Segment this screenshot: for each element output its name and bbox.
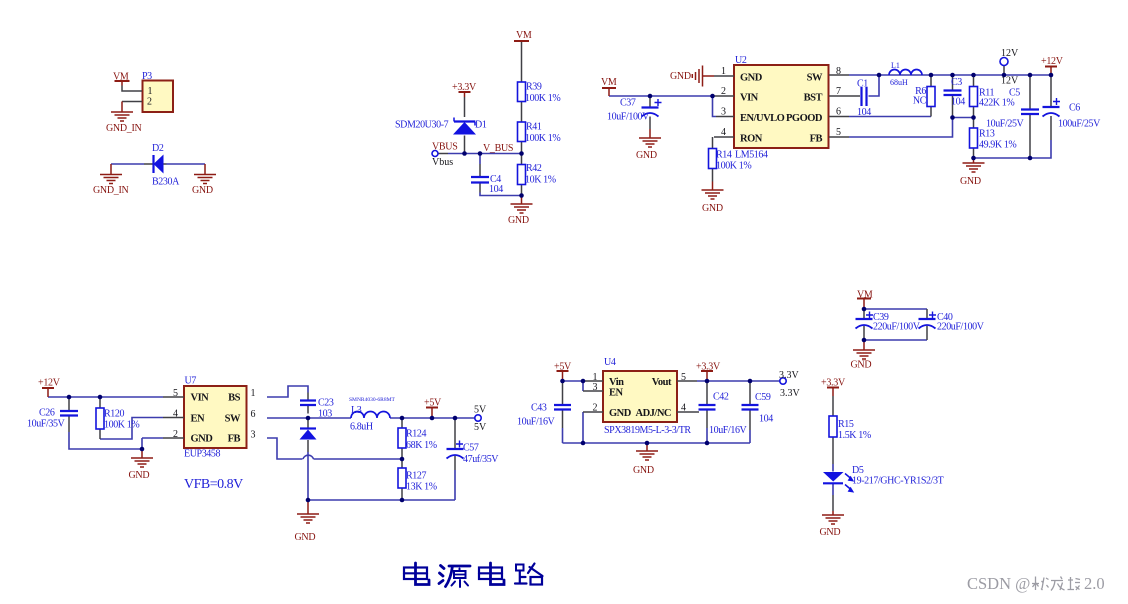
svg-text:47uf/35V: 47uf/35V	[463, 454, 499, 465]
svg-text:EN: EN	[609, 388, 624, 399]
svg-text:R120: R120	[104, 409, 124, 420]
svg-text:R15: R15	[838, 419, 854, 430]
svg-text:8: 8	[836, 66, 841, 77]
svg-text:GND: GND	[508, 215, 529, 226]
svg-text:C23: C23	[318, 398, 334, 409]
svg-text:3.3V: 3.3V	[779, 370, 800, 381]
svg-text:13K 1%: 13K 1%	[406, 482, 437, 493]
svg-text:100K 1%: 100K 1%	[716, 161, 751, 172]
svg-text:68uH: 68uH	[890, 78, 908, 87]
svg-text:Vin: Vin	[609, 377, 624, 388]
svg-text:FB: FB	[228, 434, 241, 445]
svg-text:2: 2	[721, 86, 726, 97]
svg-text:6: 6	[836, 107, 841, 118]
svg-text:100K 1%: 100K 1%	[104, 420, 139, 431]
svg-text:FB: FB	[810, 134, 823, 145]
svg-text:4: 4	[721, 127, 726, 138]
svg-text:10uF/16V: 10uF/16V	[517, 417, 556, 428]
svg-text:5: 5	[836, 127, 841, 138]
svg-text:VM: VM	[113, 72, 129, 83]
svg-text:2: 2	[147, 97, 152, 108]
svg-text:L3: L3	[351, 405, 362, 416]
svg-text:U4: U4	[604, 357, 616, 368]
svg-text:BST: BST	[804, 93, 823, 104]
svg-text:3: 3	[251, 430, 256, 441]
svg-text:104: 104	[857, 107, 871, 118]
svg-text:220uF/100V: 220uF/100V	[937, 322, 985, 333]
svg-text:P3: P3	[142, 71, 152, 82]
svg-text:D1: D1	[475, 120, 487, 131]
svg-text:ADJ/NC: ADJ/NC	[636, 408, 672, 419]
svg-text:3: 3	[721, 107, 726, 118]
svg-text:GND: GND	[851, 360, 872, 371]
svg-text:Vout: Vout	[652, 377, 672, 388]
svg-text:C42: C42	[713, 392, 729, 403]
svg-text:12V: 12V	[1001, 48, 1019, 59]
svg-text:5: 5	[173, 388, 178, 399]
svg-text:V_BUS: V_BUS	[483, 143, 513, 154]
svg-text:VIN: VIN	[740, 93, 759, 104]
svg-text:EUP3458: EUP3458	[184, 449, 220, 460]
svg-text:220uF/100V: 220uF/100V	[873, 322, 921, 333]
svg-text:C37: C37	[620, 98, 636, 109]
svg-text:EN/UVLO: EN/UVLO	[740, 113, 785, 124]
svg-text:GND: GND	[633, 465, 654, 476]
svg-text:C6: C6	[1069, 103, 1080, 114]
svg-text:C1: C1	[857, 79, 868, 90]
svg-text:68K 1%: 68K 1%	[406, 440, 437, 451]
svg-text:VM: VM	[516, 30, 532, 41]
svg-text:EN: EN	[191, 414, 206, 425]
svg-text:C26: C26	[39, 408, 55, 419]
svg-text:SMNR4030-6R8MT: SMNR4030-6R8MT	[349, 397, 395, 403]
svg-text:12V: 12V	[1001, 76, 1019, 87]
svg-text:+12V: +12V	[38, 378, 61, 389]
svg-text:LM5164: LM5164	[735, 150, 768, 161]
svg-text:U7: U7	[185, 376, 197, 387]
svg-text:+3.3V: +3.3V	[821, 378, 846, 389]
svg-text:R124: R124	[406, 429, 426, 440]
svg-text:GND: GND	[191, 434, 214, 445]
svg-text:3.3V: 3.3V	[780, 388, 801, 399]
svg-text:100uF/25V: 100uF/25V	[1058, 119, 1101, 130]
svg-text:100K 1%: 100K 1%	[525, 93, 560, 104]
svg-text:Vbus: Vbus	[432, 157, 453, 168]
svg-text:C3: C3	[951, 77, 962, 88]
svg-text:GND_IN: GND_IN	[93, 185, 128, 196]
svg-text:VIN: VIN	[191, 393, 210, 404]
svg-text:R41: R41	[526, 122, 542, 133]
svg-text:10uF/100V: 10uF/100V	[607, 112, 650, 123]
svg-text:+5V: +5V	[424, 398, 442, 409]
svg-text:SW: SW	[807, 73, 823, 84]
svg-text:R39: R39	[526, 82, 542, 93]
svg-text:2.0: 2.0	[1084, 574, 1105, 593]
svg-text:GND: GND	[129, 470, 150, 481]
svg-text:VM: VM	[857, 290, 873, 301]
svg-text:GND: GND	[740, 73, 763, 84]
svg-text:VBUS: VBUS	[432, 142, 457, 153]
svg-text:104: 104	[489, 184, 503, 195]
svg-text:L1: L1	[891, 61, 900, 70]
svg-text:10uF/35V: 10uF/35V	[27, 419, 66, 430]
svg-text:+5V: +5V	[554, 362, 572, 373]
svg-text:R14: R14	[716, 150, 732, 161]
svg-text:GND: GND	[295, 532, 316, 543]
svg-text:6.8uH: 6.8uH	[350, 422, 373, 433]
svg-text:C59: C59	[755, 392, 771, 403]
svg-text:GND: GND	[702, 203, 723, 214]
svg-text:1.5K 1%: 1.5K 1%	[838, 430, 871, 441]
svg-text:GND: GND	[820, 527, 841, 538]
svg-text:GND: GND	[609, 408, 632, 419]
svg-text:4: 4	[681, 403, 686, 414]
svg-text:104: 104	[951, 97, 965, 108]
svg-text:6: 6	[251, 409, 256, 420]
svg-text:10K 1%: 10K 1%	[525, 175, 556, 186]
svg-text:GND: GND	[960, 176, 981, 187]
svg-text:1: 1	[251, 388, 256, 399]
svg-text:VFB=0.8V: VFB=0.8V	[184, 477, 243, 492]
svg-text:D2: D2	[152, 143, 164, 154]
svg-text:R13: R13	[979, 129, 995, 140]
svg-text:2: 2	[593, 403, 598, 414]
svg-text:CSDN @: CSDN @	[967, 574, 1030, 593]
svg-text:1: 1	[721, 66, 726, 77]
svg-text:3: 3	[593, 382, 598, 393]
svg-text:100K 1%: 100K 1%	[525, 133, 560, 144]
svg-text:5V: 5V	[474, 405, 487, 416]
svg-text:103: 103	[318, 409, 332, 420]
svg-text:4: 4	[173, 409, 178, 420]
svg-text:10uF/16V: 10uF/16V	[709, 425, 748, 436]
svg-text:+3.3V: +3.3V	[696, 362, 721, 373]
svg-text:C43: C43	[531, 403, 547, 414]
svg-text:GND: GND	[670, 71, 691, 82]
svg-text:422K 1%: 422K 1%	[979, 98, 1014, 109]
svg-text:RON: RON	[740, 134, 763, 145]
svg-text:5: 5	[681, 372, 686, 383]
svg-text:5V: 5V	[474, 422, 487, 433]
svg-text:2: 2	[173, 429, 178, 440]
svg-text:R127: R127	[406, 471, 426, 482]
svg-text:SPX3819M5-L-3-3/TR: SPX3819M5-L-3-3/TR	[604, 425, 691, 436]
svg-text:VM: VM	[601, 77, 617, 88]
svg-text:GND_IN: GND_IN	[106, 123, 141, 134]
svg-text:U2: U2	[735, 55, 747, 66]
svg-text:C57: C57	[463, 443, 479, 454]
svg-text:+12V: +12V	[1041, 56, 1064, 67]
svg-text:BS: BS	[228, 393, 241, 404]
svg-text:D5: D5	[852, 465, 864, 476]
svg-text:104: 104	[759, 414, 773, 425]
svg-text:SDM20U30-7: SDM20U30-7	[395, 120, 449, 131]
svg-text:1: 1	[148, 86, 153, 97]
svg-text:C5: C5	[1009, 88, 1020, 99]
svg-text:+3.3V: +3.3V	[452, 82, 477, 93]
svg-text:NC: NC	[913, 96, 927, 107]
svg-text:GND: GND	[636, 150, 657, 161]
svg-text:PGOOD: PGOOD	[786, 113, 823, 124]
svg-text:R42: R42	[526, 163, 542, 174]
svg-text:SW: SW	[225, 414, 241, 425]
svg-text:7: 7	[836, 86, 841, 97]
svg-text:49.9K 1%: 49.9K 1%	[979, 140, 1016, 151]
svg-text:B230A: B230A	[152, 177, 180, 188]
svg-text:GND: GND	[192, 185, 213, 196]
svg-text:19-217/GHC-YR1S2/3T: 19-217/GHC-YR1S2/3T	[852, 476, 944, 487]
